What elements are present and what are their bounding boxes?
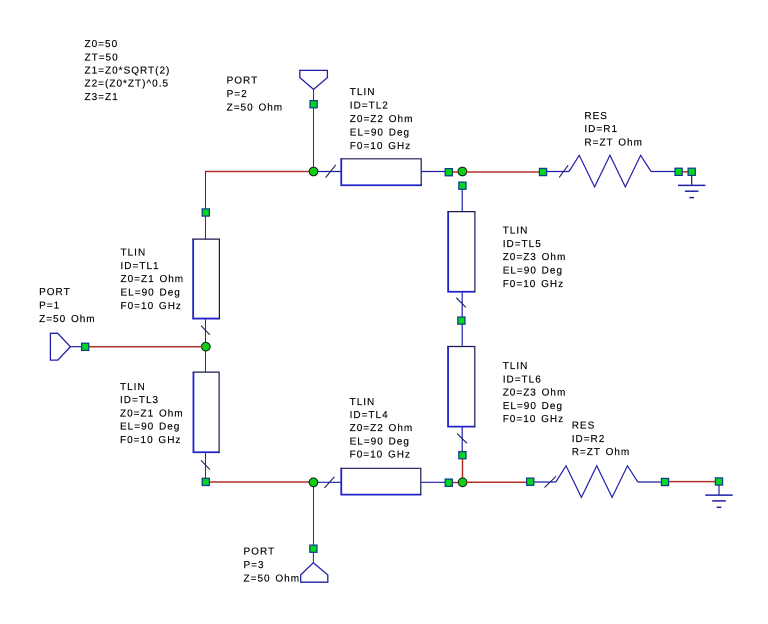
- svg-text:Z=50 Ohm: Z=50 Ohm: [244, 573, 301, 584]
- TLIN TL1 box: [192, 239, 220, 320]
- equation block text: [85, 39, 171, 103]
- svg-text:EL=90 Deg: EL=90 Deg: [503, 401, 563, 412]
- resistor R2 label: [572, 420, 631, 458]
- ground GND2 (bottom right): [705, 478, 732, 507]
- TLIN TL6 pin stub top: [461, 324, 463, 346]
- TLIN TL6 label: [503, 361, 567, 425]
- svg-text:TLIN: TLIN: [350, 397, 376, 408]
- svg-text:PORT: PORT: [227, 76, 259, 87]
- svg-text:TLIN: TLIN: [350, 87, 376, 98]
- svg-text:EL=90 Deg: EL=90 Deg: [350, 436, 410, 447]
- svg-text:Z0=Z2 Ohm: Z0=Z2 Ohm: [350, 423, 414, 434]
- TLIN TL4 label: [350, 397, 414, 461]
- svg-text:R=ZT Ohm: R=ZT Ohm: [572, 447, 631, 458]
- svg-text:ID=TL3: ID=TL3: [120, 395, 159, 406]
- wire TL3 square to junction P3 - red horizontal: [210, 481, 310, 483]
- resistor R2 zigzag: [556, 466, 638, 498]
- port P2 symbol (triangle): [300, 70, 328, 89]
- port P3 symbol (triangle): [301, 563, 328, 583]
- port P1 label: [39, 287, 96, 325]
- svg-text:P=1: P=1: [39, 301, 60, 312]
- TLIN TL5 pin stub top: [461, 190, 463, 212]
- svg-text:Z0=Z2 Ohm: Z0=Z2 Ohm: [350, 114, 414, 125]
- svg-text:P=2: P=2: [227, 89, 248, 100]
- junction node bottom-right (TL4 / TL6 / R2): [458, 478, 467, 487]
- resistor R1 pin1 tick: [559, 165, 568, 177]
- resistor R1 label: [584, 111, 643, 149]
- TLIN TL4 pin1 stub: [318, 481, 341, 483]
- TLIN TL2 label: [350, 87, 414, 152]
- wire junction P1 down to TL3 - dark vertical: [205, 351, 207, 372]
- resistor R1 left lead: [547, 171, 569, 173]
- resistor R2 left lead: [534, 481, 556, 483]
- svg-text:Z1=Z0*SQRT(2): Z1=Z0*SQRT(2): [85, 66, 171, 77]
- pin square TL2 right: [445, 169, 452, 176]
- TLIN TL6 box: [447, 346, 475, 428]
- wire port P1 to junction - red horizontal: [89, 346, 202, 348]
- svg-text:ID=TL6: ID=TL6: [503, 374, 542, 385]
- ground GND1 (top right): [678, 168, 705, 197]
- pin square R1 left: [539, 168, 546, 175]
- wire R2 to ground - red horizontal: [669, 481, 715, 483]
- svg-text:PORT: PORT: [39, 287, 71, 298]
- svg-text:RES: RES: [584, 111, 608, 122]
- TLIN TL1 pin1 stub (bottom): [205, 319, 207, 343]
- pin square R1 right: [675, 168, 682, 175]
- svg-text:Z0=Z3 Ohm: Z0=Z3 Ohm: [503, 388, 567, 399]
- pin square TL6 bottom: [459, 452, 466, 459]
- svg-text:Z0=Z1 Ohm: Z0=Z1 Ohm: [120, 408, 184, 419]
- wire junction down to port P3 - dark vertical: [313, 487, 315, 546]
- svg-text:TLIN: TLIN: [503, 361, 529, 372]
- svg-text:TLIN: TLIN: [503, 226, 529, 237]
- svg-text:Z0=Z1 Ohm: Z0=Z1 Ohm: [121, 274, 185, 285]
- pin square port P3: [310, 545, 317, 552]
- resistor R2 right lead: [638, 481, 661, 483]
- svg-text:F0=10 GHz: F0=10 GHz: [350, 450, 411, 461]
- pin square TL5 top: [459, 182, 466, 189]
- svg-text:TLIN: TLIN: [121, 248, 147, 259]
- junction node port P1 (TL1 / TL3): [201, 342, 210, 351]
- TLIN TL6 pin1 stub (bottom): [461, 427, 463, 451]
- svg-text:P=3: P=3: [244, 560, 265, 571]
- resistor R1 right lead: [651, 171, 675, 173]
- pin square R2 left: [527, 478, 534, 485]
- svg-text:Z=50 Ohm: Z=50 Ohm: [39, 314, 96, 325]
- wire left column top - dark vertical from corner to TL1 top: [205, 171, 207, 239]
- wire junction to R2 - red horizontal: [466, 481, 527, 483]
- port P2 label: [227, 76, 284, 114]
- TLIN TL3 label: [120, 382, 184, 446]
- port P3 label: [244, 547, 301, 585]
- svg-text:EL=90 Deg: EL=90 Deg: [121, 288, 181, 299]
- svg-text:ID=TL5: ID=TL5: [503, 239, 542, 250]
- wire junction to R1 - red horizontal: [466, 171, 540, 173]
- wirelet TL2 square to junction - red: [453, 171, 460, 173]
- svg-text:TLIN: TLIN: [120, 382, 146, 393]
- wirelet TL4 square to junction - red: [453, 482, 460, 484]
- junction node top-left (P2 / TL2): [309, 167, 318, 176]
- TLIN TL5 pin1 stub (bottom): [461, 293, 463, 318]
- wire TL6 to junction - red vertical: [462, 459, 464, 479]
- TLIN TL2 pin2 stub: [422, 171, 445, 173]
- TLIN TL6 pin1 tick: [457, 434, 467, 444]
- svg-text:ID=R2: ID=R2: [572, 434, 606, 445]
- TLIN TL2 box: [341, 158, 422, 186]
- svg-text:Z3=Z1: Z3=Z1: [85, 92, 119, 103]
- svg-text:ID=TL1: ID=TL1: [121, 261, 160, 272]
- junction node bottom-left (P3 / TL4): [309, 478, 318, 487]
- port P3 stub to pin: [312, 553, 314, 563]
- svg-text:F0=10 GHz: F0=10 GHz: [350, 141, 411, 152]
- svg-text:F0=10 GHz: F0=10 GHz: [121, 301, 182, 312]
- svg-text:Z0=50: Z0=50: [85, 39, 119, 50]
- wirelet R1 to ground - red: [682, 171, 688, 173]
- svg-text:R=ZT Ohm: R=ZT Ohm: [584, 138, 643, 149]
- pin square TL5 bottom / TL6 top: [458, 317, 465, 324]
- resistor R2 pin1 tick: [545, 476, 557, 487]
- TLIN TL1 label: [121, 248, 185, 312]
- TLIN TL2 pin1 stub: [318, 171, 341, 173]
- svg-text:RES: RES: [572, 420, 596, 431]
- port P2 stub to pin: [313, 89, 315, 101]
- pin square port P2: [310, 101, 317, 108]
- pin square TL4 right: [445, 479, 452, 486]
- port P1 symbol (triangle): [50, 333, 70, 360]
- svg-text:F0=10 GHz: F0=10 GHz: [503, 279, 564, 290]
- resistor R1 zigzag: [569, 155, 651, 187]
- TLIN TL3 pin1 tick: [201, 460, 210, 469]
- svg-text:F0=10 GHz: F0=10 GHz: [120, 435, 181, 446]
- pin square port P1: [82, 343, 89, 350]
- port P1 stub to pin: [70, 346, 81, 348]
- TLIN TL5 pin1 tick: [456, 298, 466, 308]
- svg-text:ID=TL4: ID=TL4: [350, 410, 389, 421]
- svg-text:EL=90 Deg: EL=90 Deg: [503, 266, 563, 277]
- wire corner (205.5,171.5) to junction P2 - red horizontal: [205, 171, 310, 173]
- TLIN TL4 pin2 stub: [421, 481, 445, 483]
- svg-text:F0=10 GHz: F0=10 GHz: [503, 414, 564, 425]
- junction node top-right (TL2 / TL5 / R1): [458, 167, 467, 176]
- svg-text:Z0=Z3 Ohm: Z0=Z3 Ohm: [503, 252, 567, 263]
- TLIN TL2 pin1 tick: [326, 165, 336, 178]
- svg-text:Z2=(Z0*ZT)^0.5: Z2=(Z0*ZT)^0.5: [85, 79, 170, 90]
- TLIN TL4 box: [341, 468, 422, 496]
- TLIN TL3 box: [193, 372, 220, 454]
- svg-text:Z=50 Ohm: Z=50 Ohm: [227, 102, 284, 113]
- svg-text:EL=90 Deg: EL=90 Deg: [350, 127, 410, 138]
- TLIN TL4 pin1 tick: [324, 477, 334, 488]
- TLIN TL1 pin1 tick: [201, 326, 210, 335]
- svg-text:ID=TL2: ID=TL2: [350, 100, 389, 111]
- TLIN TL5 label: [503, 226, 567, 290]
- svg-text:PORT: PORT: [244, 547, 276, 558]
- svg-text:EL=90 Deg: EL=90 Deg: [120, 422, 180, 433]
- pin square TL3 bottom: [202, 478, 209, 485]
- wire port P2 to junction - dark vertical: [313, 108, 315, 168]
- TLIN TL5 box: [447, 211, 475, 293]
- TLIN TL3 pin1 stub (bottom): [205, 453, 207, 478]
- svg-text:ZT=50: ZT=50: [85, 52, 119, 63]
- pin square TL1 top (wire end): [202, 209, 209, 216]
- svg-text:ID=R1: ID=R1: [584, 124, 618, 135]
- pin square R2 right: [661, 478, 668, 485]
